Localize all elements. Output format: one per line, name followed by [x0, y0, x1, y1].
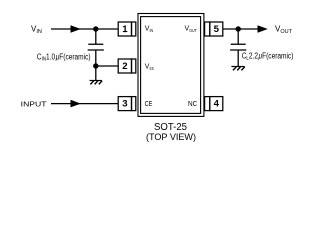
junction node at VSS: [93, 63, 98, 68]
pin label VSS inside body: [145, 64, 154, 72]
pin 5 box: [205, 22, 223, 36]
arrowhead on INPUT wire: [71, 100, 81, 108]
wire INPUT to pin 3: [51, 103, 118, 105]
ground (left): [90, 81, 103, 85]
wire junction to pin 2: [96, 65, 118, 67]
node VOUT label: [275, 25, 293, 36]
wire CL bottom plate to ground: [237, 50, 239, 67]
junction node at CL top: [236, 26, 241, 31]
svg-text:VOUT: VOUT: [275, 25, 293, 36]
wire CIN bottom plate to junction: [95, 50, 97, 66]
svg-text:CE: CE: [145, 101, 153, 109]
svg-text:IN: IN: [150, 27, 154, 33]
pin 4 box: [205, 97, 223, 111]
capacitor CL: [230, 44, 246, 50]
svg-text:OUT: OUT: [189, 27, 197, 33]
wire junction to CIN top plate: [95, 29, 97, 44]
pin 2 box: [118, 59, 136, 73]
svg-text:VIN: VIN: [31, 25, 42, 36]
package name SOT-25: [154, 122, 187, 133]
svg-text:3: 3: [122, 99, 127, 110]
CL value label: [242, 51, 294, 62]
svg-text:NC: NC: [188, 101, 197, 108]
node VIN label: [31, 25, 42, 36]
pin label VOUT inside body: [185, 25, 198, 33]
CIN value label: [37, 52, 91, 63]
capacitor CIN: [88, 44, 104, 50]
wire VIN to pin 1: [51, 28, 118, 30]
junction node at CIN top: [93, 26, 98, 31]
pin 1 box: [118, 22, 136, 36]
ground (right): [231, 67, 244, 71]
wire pin 5 to VOUT: [223, 28, 258, 30]
svg-text:2: 2: [122, 61, 127, 72]
package view label (TOP VIEW): [146, 131, 196, 142]
pin label NC inside body: [188, 101, 197, 108]
wire junction to ground: [95, 66, 97, 81]
svg-text:CIN1.0μF(ceramic): CIN1.0μF(ceramic): [37, 52, 91, 63]
node INPUT label: [21, 101, 48, 108]
pin 3 box: [118, 97, 136, 111]
arrowhead on VIN wire: [71, 25, 81, 33]
svg-text:(TOP VIEW): (TOP VIEW): [146, 131, 196, 142]
svg-text:1: 1: [122, 24, 128, 35]
wire junction to CL top plate: [237, 29, 239, 44]
pin label VIN inside body: [145, 25, 153, 33]
svg-text:CL2.2μF(ceramic): CL2.2μF(ceramic): [242, 51, 294, 62]
svg-text:SS: SS: [149, 65, 154, 71]
IC body U1 (SOT-25 outline): [138, 14, 204, 117]
svg-text:INPUT: INPUT: [21, 101, 48, 108]
svg-text:4: 4: [214, 99, 220, 110]
pin label CE inside body: [145, 101, 153, 109]
svg-text:5: 5: [214, 24, 220, 35]
arrowhead on VOUT wire: [258, 25, 268, 33]
